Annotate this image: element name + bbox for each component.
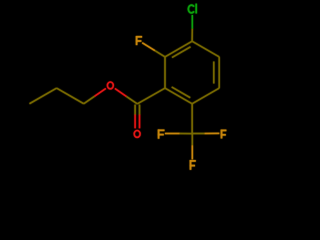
benzene ring C2-C3 bond (double): [165, 41, 192, 57]
bond C3-Cl, chlorine half (green): [191, 15, 193, 29]
benzene ring C1-C2 bond: [164, 57, 166, 88]
atom label F on ring C2: stem + two bars: [136, 36, 142, 45]
benzene ring C5-C6 bond: [192, 88, 219, 104]
ester C8-O single bond, carbon half: [126, 96, 137, 104]
atom label Cl (chlorine): C arc + l stem: [188, 4, 196, 14]
atom label F below CF3: [190, 160, 196, 170]
benzene ring C6-C1 bond (double): [165, 88, 192, 104]
benzene ring C6-C1 inner double line: [172, 87, 191, 98]
ester C8-O single bond, oxygen half (red): [115, 89, 126, 97]
bond C6 to CF3 carbon C7: [191, 104, 193, 134]
atom label O ester oxygen: outline ellipse: [107, 82, 113, 89]
bond C2-F, fluorine half (orange): [142, 43, 155, 51]
benzene ring C3-C4 bond: [192, 41, 219, 57]
benzene ring C2-C3 inner double line: [172, 47, 191, 58]
bond C1 to carbonyl carbon C8: [137, 88, 165, 104]
atom label F left of CF3: [158, 129, 165, 138]
bond C7-F right, fluorine half (orange): [205, 132, 220, 134]
bond C7-F bottom, carbon half: [191, 134, 193, 146]
benzene ring C4-C5 inner double line: [213, 62, 215, 84]
atom label F right of CF3: [221, 130, 227, 139]
propyl C9-C10 bond: [57, 88, 84, 104]
bond C7-F left, fluorine half (orange): [165, 133, 180, 135]
bond C3-Cl, carbon half: [191, 29, 193, 41]
carbonyl C8=O double bond, carbon halves: [134, 105, 136, 115]
atom label O carbonyl oxygen: outline ellipse: [134, 130, 140, 137]
propyl C10-C11 bond: [30, 88, 57, 104]
carbonyl C8=O double bond, oxygen halves (red): [134, 115, 136, 129]
ester O-C9 bond, oxygen half (red): [95, 89, 106, 97]
benzene ring C4-C5 bond (double): [218, 57, 220, 88]
bond C7-F bottom, fluorine half (orange): [191, 145, 193, 159]
bond C7-F left, carbon half: [180, 133, 193, 135]
bond C7-F right, carbon half: [192, 132, 204, 134]
ester O-C9 bond, carbon half: [84, 96, 95, 103]
bond C2-F, carbon half: [155, 51, 165, 57]
